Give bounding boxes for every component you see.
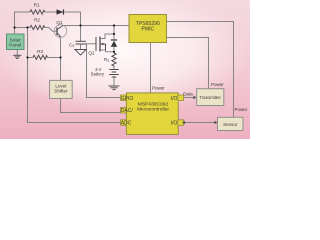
wire data I/O to transmitter bbox=[184, 97, 194, 99]
ground (solar) bbox=[13, 55, 21, 58]
diode D1 bbox=[57, 9, 64, 14]
svg-text:Solar: Solar bbox=[10, 38, 22, 44]
GPIO tab bbox=[121, 95, 127, 101]
wire Q2 drain branch bbox=[100, 34, 114, 39]
level shifter box bbox=[50, 80, 73, 98]
solar panel box bbox=[7, 34, 25, 50]
svg-text:Q1: Q1 bbox=[56, 20, 63, 25]
I/O tab bottom bbox=[178, 120, 184, 126]
wire cap to ground bbox=[80, 44, 82, 50]
wire rail to diode D2 bbox=[113, 26, 115, 41]
wire I/O to sensor bbox=[185, 122, 216, 124]
svg-text:Power: Power bbox=[211, 82, 224, 87]
wire PMIC bottom power to MSP bbox=[150, 43, 152, 93]
svg-text:I/O: I/O bbox=[171, 96, 178, 102]
svg-text:Q2: Q2 bbox=[88, 51, 95, 56]
wire Q2 gate to GPIO bbox=[87, 44, 122, 98]
mosfet Q2 bbox=[96, 37, 106, 52]
wire R2 to Q1 base (with jog down) bbox=[45, 28, 57, 32]
wire R2 row bbox=[15, 27, 31, 29]
arrowhead at I/O (bidirectional) bbox=[182, 121, 185, 124]
ground (Cs, triangle) bbox=[75, 50, 86, 56]
arrowhead into sensor bbox=[214, 121, 217, 124]
resistor R1 bbox=[30, 10, 45, 14]
resistor Rs bbox=[112, 53, 116, 67]
wire emitter down to level shifter bbox=[60, 38, 62, 81]
svg-text:Transmitter: Transmitter bbox=[199, 95, 221, 100]
wire Q2 source to node bbox=[100, 50, 114, 52]
wire D2 to Rs node bbox=[113, 47, 115, 54]
wire PMIC out2 to transmitter power bbox=[167, 38, 209, 89]
svg-text:Shifter: Shifter bbox=[54, 89, 68, 94]
wire solar top feed bbox=[15, 12, 31, 35]
PMIC U1 box bbox=[129, 15, 167, 43]
arrowhead into transmitter bbox=[193, 96, 196, 99]
svg-text:R3: R3 bbox=[37, 49, 43, 54]
junction node dots bbox=[13, 24, 115, 58]
wire Cs branch bbox=[80, 26, 82, 42]
MSP430 microcontroller box bbox=[121, 93, 184, 134]
svg-text:I/O: I/O bbox=[171, 120, 178, 126]
sensor box bbox=[218, 117, 244, 130]
wire diode to drop bbox=[65, 12, 81, 26]
DAC tab bbox=[121, 108, 127, 114]
wire collector rail to PMIC bbox=[63, 25, 129, 27]
svg-text:PMIC: PMIC bbox=[141, 27, 154, 33]
svg-text:DAC/: DAC/ bbox=[121, 108, 134, 114]
svg-text:ADC: ADC bbox=[121, 120, 132, 126]
svg-text:R2: R2 bbox=[34, 18, 40, 23]
svg-text:GPIO: GPIO bbox=[121, 96, 134, 102]
ground (battery) bbox=[109, 86, 120, 90]
battery cell bbox=[109, 70, 119, 78]
wire solar to ground bbox=[16, 50, 18, 56]
wire level shifter to DAC bbox=[61, 99, 122, 113]
svg-text:Panel: Panel bbox=[9, 43, 21, 49]
wire R1 to diode bbox=[45, 11, 57, 13]
ADC tab bbox=[121, 120, 127, 126]
svg-text:Sensor: Sensor bbox=[223, 122, 238, 127]
svg-text:Data: Data bbox=[183, 91, 193, 96]
svg-text:Power: Power bbox=[152, 86, 165, 91]
wire R3 to emitter line bbox=[48, 57, 61, 59]
svg-text:Microcontroller: Microcontroller bbox=[137, 106, 169, 112]
wire Rs to battery bbox=[113, 67, 115, 70]
resistor R2 bbox=[30, 25, 45, 29]
wire R3 row bbox=[28, 57, 34, 59]
transmitter box bbox=[197, 89, 224, 106]
resistor R3 bbox=[33, 55, 48, 59]
wire PMIC out1 to sensor power bbox=[167, 22, 234, 118]
diode D2 (battery bypass) bbox=[111, 40, 117, 47]
I/O tab top bbox=[178, 95, 184, 101]
svg-text:Power: Power bbox=[235, 107, 248, 112]
wire solar node down to ADC bbox=[28, 28, 122, 123]
svg-text:Battery: Battery bbox=[91, 72, 105, 77]
svg-text:R1: R1 bbox=[34, 3, 40, 8]
wire battery to ground bbox=[113, 77, 115, 86]
transistor Q1 bbox=[54, 25, 67, 38]
capacitor Cs bbox=[76, 41, 87, 44]
